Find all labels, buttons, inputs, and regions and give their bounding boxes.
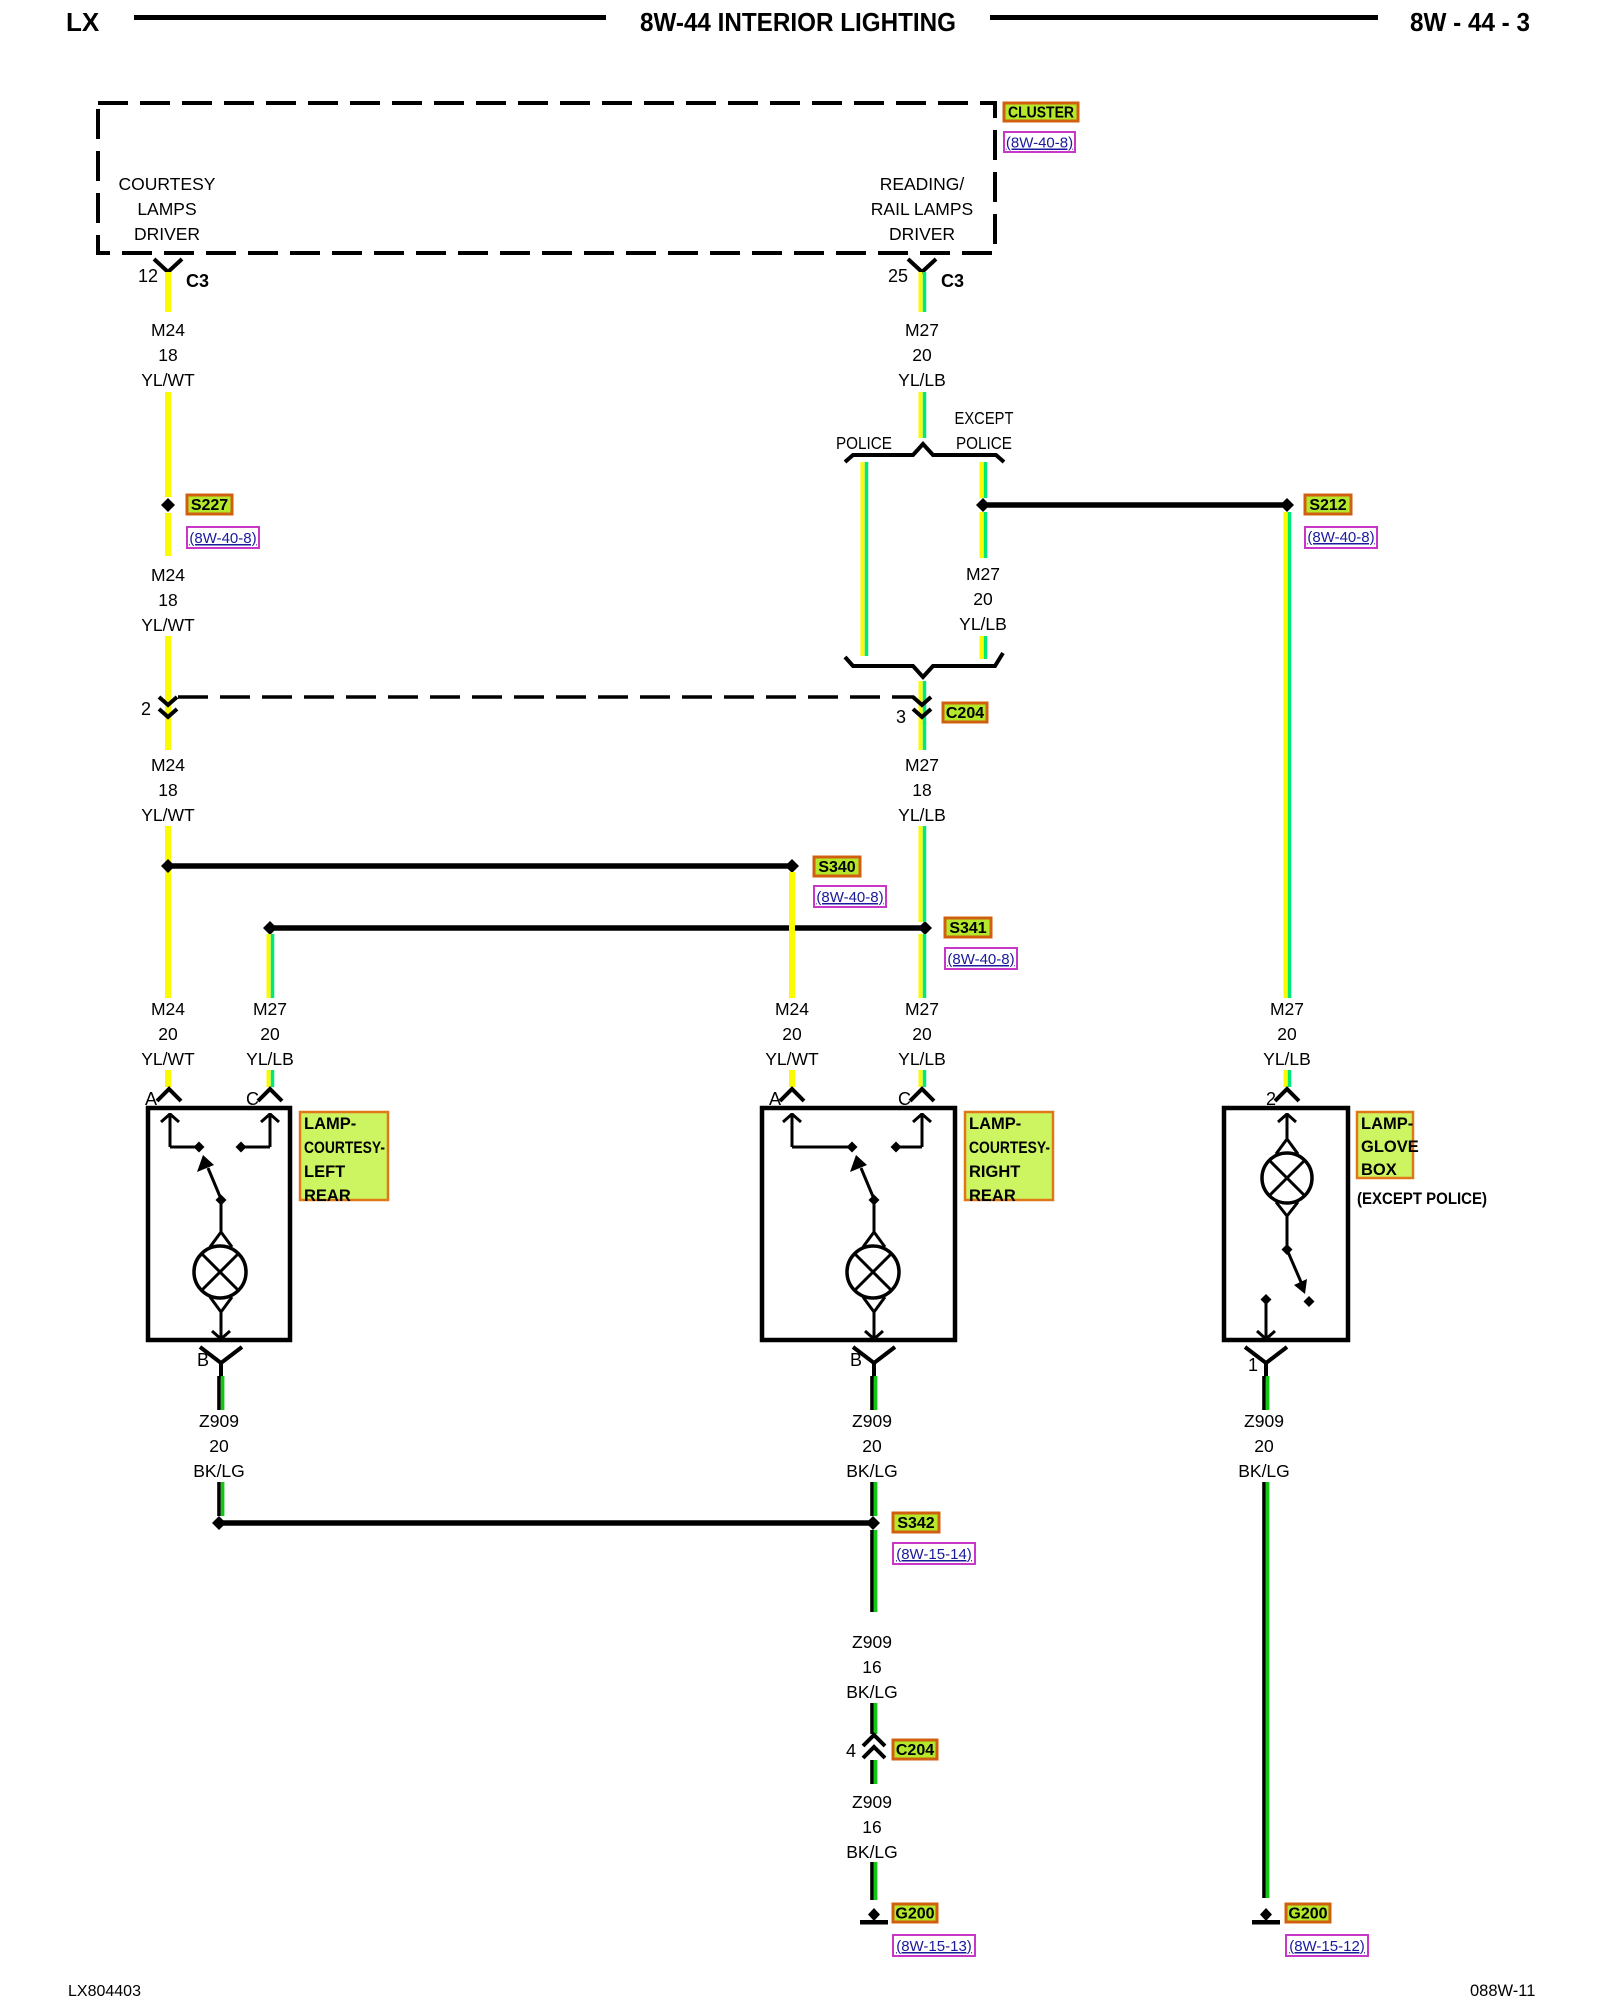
svg-text:LAMPS: LAMPS: [137, 199, 196, 219]
wire stub below connector C204 pin 3: [921, 722, 925, 750]
svg-text:(8W-40-8): (8W-40-8): [816, 889, 883, 906]
pin B of left courtesy lamp: [197, 1347, 242, 1378]
svg-text:M24: M24: [151, 999, 185, 1019]
svg-text:COURTESY-: COURTESY-: [304, 1139, 385, 1157]
svg-text:COURTESY-: COURTESY-: [969, 1139, 1050, 1157]
dashed connector line C204: [178, 695, 914, 699]
svg-text:GLOVE: GLOVE: [1361, 1138, 1419, 1156]
link (8W-15-13) G200: [893, 1935, 975, 1956]
svg-text:8W-44 INTERIOR LIGHTING: 8W-44 INTERIOR LIGHTING: [640, 7, 956, 37]
svg-text:S341: S341: [949, 920, 986, 937]
label LAMP-GLOVE BOX: [1357, 1112, 1419, 1179]
lamp courtesy right rear box E2: [762, 1108, 955, 1340]
svg-text:4: 4: [846, 1741, 856, 1761]
svg-text:LEFT: LEFT: [304, 1163, 345, 1181]
wire label M24 18 YL/WT: [141, 320, 195, 390]
left lamp bulb: [194, 1200, 246, 1340]
link (8W-15-14) S342: [893, 1543, 975, 1564]
svg-text:20: 20: [782, 1024, 802, 1044]
footer: [68, 1982, 1535, 2000]
svg-text:(8W-40-8): (8W-40-8): [1006, 135, 1073, 152]
wire label M24 20 YL/WT left lamp pin A: [141, 999, 195, 1069]
wire segment below S342: [872, 1530, 876, 1612]
glove lamp bottom contact and exit arrow: [1257, 1294, 1275, 1340]
svg-text:BK/LG: BK/LG: [846, 1682, 898, 1702]
svg-text:(EXCEPT POLICE): (EXCEPT POLICE): [1357, 1189, 1487, 1208]
wire segment below S212 branch: [982, 512, 986, 558]
wire label M27 20 YL/LB except-police branch: [959, 564, 1007, 634]
splice S341 junction and tie line: [263, 921, 932, 935]
svg-text:M27: M27: [1270, 999, 1304, 1019]
svg-text:BK/LG: BK/LG: [193, 1461, 245, 1481]
brace split POLICE / EXCEPT POLICE: [836, 408, 1014, 462]
pin 1 of glove box lamp: [1245, 1347, 1287, 1378]
label S342: [893, 1513, 939, 1532]
svg-text:S212: S212: [1309, 497, 1346, 514]
svg-text:YL/WT: YL/WT: [765, 1049, 819, 1069]
label C204 top: [943, 703, 987, 722]
wire EXCEPT POLICE branch to splice S212: [982, 462, 986, 498]
svg-text:YL/LB: YL/LB: [1263, 1049, 1311, 1069]
svg-text:YL/WT: YL/WT: [141, 805, 195, 825]
page header: [66, 7, 1530, 37]
svg-text:G200: G200: [895, 1906, 934, 1923]
svg-text:(8W-40-8): (8W-40-8): [947, 951, 1014, 968]
svg-text:(8W-15-14): (8W-15-14): [896, 1546, 972, 1563]
link (8W-40-8) S341: [945, 948, 1017, 969]
right lamp switch blade: [850, 1155, 880, 1206]
wire segment to ground G200: [872, 1862, 876, 1900]
svg-text:Z909: Z909: [852, 1632, 892, 1652]
svg-text:(8W-15-12): (8W-15-12): [1289, 1938, 1365, 1955]
lamp glove box E3: [1224, 1108, 1348, 1340]
svg-text:REAR: REAR: [969, 1187, 1016, 1205]
pin 2 of glove box lamp: [1266, 1089, 1299, 1109]
ground G200 middle: [860, 1908, 888, 1925]
wire Z909 BK/LG from right lamp pin B: [872, 1376, 876, 1410]
svg-text:LAMP-: LAMP-: [969, 1115, 1021, 1133]
svg-text:Z909: Z909: [852, 1411, 892, 1431]
wire M27 YL/LB from S212 to glove box lamp: [1286, 512, 1290, 998]
label S212: [1305, 495, 1351, 514]
splice S227 junction: [161, 498, 175, 512]
svg-text:DRIVER: DRIVER: [134, 224, 200, 244]
svg-text:18: 18: [912, 780, 931, 800]
svg-text:COURTESY: COURTESY: [119, 174, 216, 194]
wire segment to splice S341: [921, 826, 925, 922]
wire segment below S341: [921, 934, 925, 998]
svg-text:YL/LB: YL/LB: [898, 1049, 946, 1069]
wire segment into connector C204 pin 4: [872, 1703, 876, 1734]
svg-text:LX: LX: [66, 7, 100, 37]
wire Z909 BK/LG from left lamp pin B: [219, 1376, 223, 1410]
svg-text:M24: M24: [775, 999, 809, 1019]
svg-text:DRIVER: DRIVER: [889, 224, 955, 244]
svg-text:EXCEPT: EXCEPT: [955, 408, 1014, 428]
svg-text:RIGHT: RIGHT: [969, 1163, 1020, 1181]
wire segment into splice S342: [872, 1482, 876, 1516]
svg-text:YL/WT: YL/WT: [141, 370, 195, 390]
svg-text:Z909: Z909: [199, 1411, 239, 1431]
wire label M27 20 YL/LB left lamp pin C: [246, 999, 294, 1069]
link (8W-40-8) S212: [1305, 527, 1377, 548]
wire M24 YL/WT from S340 to right lamp pin A: [789, 872, 795, 998]
wire segment below C204: [872, 1760, 876, 1784]
svg-text:(8W-40-8): (8W-40-8): [189, 530, 256, 547]
wire M24 18 YL/WT segment from cluster pin 12: [165, 272, 171, 312]
wire segment into left lamp pin A: [165, 1070, 171, 1087]
glove lamp bulb: [1262, 1139, 1312, 1246]
right lamp internal pin A entry arrow: [783, 1113, 858, 1153]
svg-text:M27: M27: [966, 564, 1000, 584]
svg-text:YL/WT: YL/WT: [141, 1049, 195, 1069]
svg-text:2: 2: [141, 699, 151, 719]
pin B of right courtesy lamp: [850, 1347, 895, 1378]
svg-text:16: 16: [862, 1817, 881, 1837]
svg-text:(8W-15-13): (8W-15-13): [896, 1938, 972, 1955]
label S341: [945, 918, 991, 937]
svg-text:YL/LB: YL/LB: [898, 370, 946, 390]
svg-text:S227: S227: [191, 497, 228, 514]
svg-text:M27: M27: [905, 320, 939, 340]
svg-text:25: 25: [888, 266, 908, 286]
wire segment to ground G200 right: [1264, 1482, 1268, 1898]
wire M27 YL/LB from S341 to left lamp pin C: [269, 934, 273, 998]
svg-text:3: 3: [896, 707, 906, 727]
glove lamp switch blade open: [1282, 1244, 1315, 1307]
svg-text:BK/LG: BK/LG: [846, 1461, 898, 1481]
wire label M24 18 YL/WT below C204: [141, 755, 195, 825]
svg-text:READING/: READING/: [880, 174, 965, 194]
wire label Z909 20 BK/LG left: [193, 1411, 245, 1481]
wire label M27 18 YL/LB below C204: [898, 755, 946, 825]
svg-text:M24: M24: [151, 565, 185, 585]
wire label Z909 20 BK/LG glove: [1238, 1411, 1290, 1481]
svg-text:G200: G200: [1288, 1906, 1327, 1923]
svg-text:M27: M27: [905, 755, 939, 775]
svg-text:RAIL LAMPS: RAIL LAMPS: [871, 199, 973, 219]
pin C of left courtesy lamp: [246, 1089, 282, 1109]
wire segment to connector C204 pin 2: [165, 636, 171, 724]
in-line connector C204 pin 2: [141, 697, 177, 719]
svg-text:18: 18: [158, 590, 177, 610]
wire POLICE branch YL/LB: [863, 462, 867, 656]
svg-text:20: 20: [209, 1436, 229, 1456]
label S227: [187, 495, 232, 514]
svg-text:BOX: BOX: [1361, 1161, 1397, 1179]
pin A of left courtesy lamp: [145, 1089, 181, 1109]
splice S212 junction and tie line: [976, 498, 1294, 512]
svg-text:LAMP-: LAMP-: [304, 1115, 356, 1133]
svg-text:Z909: Z909: [1244, 1411, 1284, 1431]
wire M27 20 YL/LB from cluster pin 25: [921, 272, 925, 312]
svg-text:C204: C204: [946, 705, 984, 722]
svg-text:YL/LB: YL/LB: [246, 1049, 294, 1069]
svg-text:M24: M24: [151, 755, 185, 775]
link (8W-40-8) S340: [814, 886, 886, 907]
wire label Z909 16 BK/LG below C204: [846, 1792, 898, 1862]
svg-text:20: 20: [973, 589, 993, 609]
wire segment to closing brace: [982, 636, 986, 659]
svg-text:M27: M27: [905, 999, 939, 1019]
svg-text:Z909: Z909: [852, 1792, 892, 1812]
label G200 middle: [893, 1904, 937, 1923]
svg-text:YL/LB: YL/LB: [959, 614, 1007, 634]
left lamp switch blade: [197, 1155, 227, 1206]
label LAMP-COURTESY-LEFT REAR: [300, 1112, 388, 1205]
wire segment into connector C204 pin 3: [921, 681, 925, 724]
left lamp internal pin C entry arrow: [236, 1113, 280, 1153]
svg-text:20: 20: [912, 1024, 932, 1044]
pin C of right courtesy lamp: [898, 1089, 934, 1109]
svg-text:POLICE: POLICE: [836, 433, 892, 453]
wire stub below connector C204 pin 2: [165, 722, 171, 750]
ground G200 right: [1252, 1908, 1280, 1925]
svg-text:20: 20: [158, 1024, 178, 1044]
wire segment into right lamp pin A: [789, 1070, 795, 1087]
svg-text:18: 18: [158, 780, 177, 800]
cluster module dashed box U1: [98, 103, 995, 253]
svg-text:M24: M24: [151, 320, 185, 340]
svg-text:CLUSTER: CLUSTER: [1008, 105, 1074, 122]
link (8W-40-8) S227: [187, 527, 259, 548]
wire segment to splice S340: [165, 826, 171, 998]
wire segment below S227: [165, 513, 171, 556]
svg-text:YL/LB: YL/LB: [898, 805, 946, 825]
label C204 bottom: [893, 1740, 937, 1759]
wire label M24 18 YL/WT below S227: [141, 565, 195, 635]
label G200 right: [1286, 1904, 1330, 1923]
wire Z909 BK/LG from glove lamp pin 1: [1264, 1376, 1268, 1410]
svg-text:12: 12: [138, 266, 158, 286]
svg-text:18: 18: [158, 345, 177, 365]
wire segment to splice S227: [165, 392, 171, 497]
svg-text:BK/LG: BK/LG: [1238, 1461, 1290, 1481]
wire segment into left lamp pin C: [269, 1070, 273, 1087]
note (EXCEPT POLICE): [1357, 1189, 1487, 1208]
wire segment to splice S342: [219, 1482, 223, 1516]
svg-text:20: 20: [1277, 1024, 1297, 1044]
wire label Z909 16 BK/LG: [846, 1632, 898, 1702]
in-line connector C204 pin 4: [846, 1735, 885, 1761]
splice S340 junction and tie line: [161, 859, 799, 873]
wire segment above brace: [921, 392, 925, 438]
svg-text:S342: S342: [897, 1515, 934, 1532]
svg-text:20: 20: [1254, 1436, 1274, 1456]
left lamp internal pin A entry arrow: [161, 1113, 205, 1153]
pin A of right courtesy lamp: [769, 1089, 804, 1109]
pin 25 of connector C3: [888, 259, 964, 291]
svg-text:C3: C3: [186, 271, 209, 291]
svg-text:20: 20: [912, 345, 932, 365]
label LAMP-COURTESY-RIGHT REAR: [965, 1112, 1053, 1205]
svg-text:LX804403: LX804403: [68, 1983, 141, 2000]
wire segment into right lamp pin C: [921, 1070, 925, 1087]
svg-text:20: 20: [862, 1436, 882, 1456]
svg-text:S340: S340: [818, 859, 855, 876]
wire segment into glove box lamp pin 2: [1286, 1070, 1290, 1087]
svg-text:LAMP-: LAMP-: [1361, 1115, 1413, 1133]
wire label M27 20 YL/LB glove box: [1263, 999, 1311, 1069]
svg-text:YL/WT: YL/WT: [141, 615, 195, 635]
splice S342 junction and tie line: [212, 1516, 880, 1530]
brace merge of POLICE branches: [845, 653, 1003, 677]
svg-text:C204: C204: [896, 1742, 934, 1759]
link (8W-40-8) cluster: [1004, 132, 1075, 152]
label S340: [814, 857, 860, 876]
svg-text:16: 16: [862, 1657, 881, 1677]
svg-text:POLICE: POLICE: [956, 433, 1012, 453]
glove lamp internal pin 2 entry arrow: [1278, 1113, 1296, 1140]
svg-text:(8W-40-8): (8W-40-8): [1307, 529, 1374, 546]
right lamp bulb: [847, 1200, 899, 1340]
lamp courtesy left rear box E1: [148, 1108, 290, 1340]
wire label Z909 20 BK/LG right: [846, 1411, 898, 1481]
svg-text:M27: M27: [253, 999, 287, 1019]
svg-text:REAR: REAR: [304, 1187, 351, 1205]
right lamp internal pin C entry arrow: [891, 1113, 932, 1153]
wire label M24 20 YL/WT right lamp pin A: [765, 999, 819, 1069]
link (8W-15-12) G200 right: [1286, 1935, 1368, 1956]
label CLUSTER: [1004, 103, 1078, 122]
wire label M27 20 YL/LB right lamp pin C: [898, 999, 946, 1069]
svg-text:C3: C3: [941, 271, 964, 291]
svg-text:BK/LG: BK/LG: [846, 1842, 898, 1862]
svg-text:20: 20: [260, 1024, 280, 1044]
in-line connector C204 pin 3: [896, 697, 931, 727]
svg-text:088W-11: 088W-11: [1470, 1982, 1535, 2000]
svg-text:8W - 44 - 3: 8W - 44 - 3: [1410, 7, 1530, 37]
pin 12 of connector C3: [138, 259, 209, 291]
wire label M27 20 YL/LB: [898, 320, 946, 390]
